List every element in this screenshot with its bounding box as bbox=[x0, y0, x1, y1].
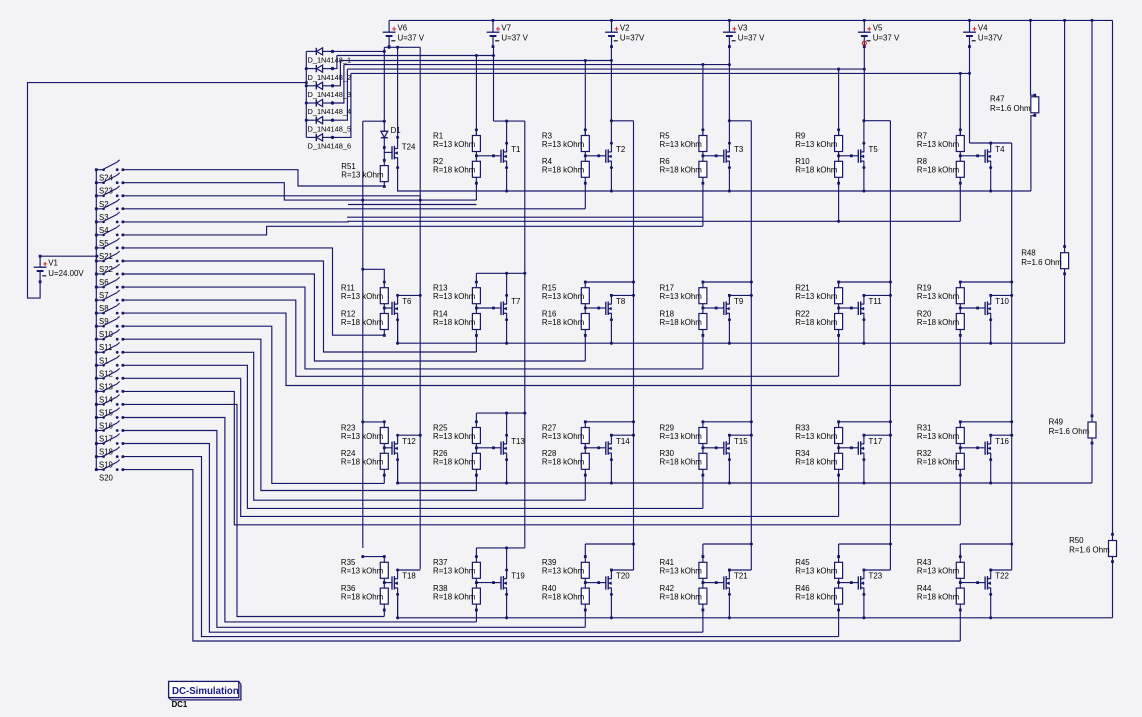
transistor T19 bbox=[501, 576, 507, 590]
wire R2 bottom stub bbox=[475, 182, 478, 185]
wire cell row4 col6 output horiz bbox=[960, 543, 1011, 545]
svg-text:T2: T2 bbox=[616, 145, 625, 154]
wire R48 top feed bbox=[1064, 20, 1066, 252]
svg-text:R=18 kOhm: R=18 kOhm bbox=[433, 318, 476, 327]
svg-text:R=13 kOhm: R=13 kOhm bbox=[795, 432, 838, 441]
wire output column col6 bbox=[1011, 143, 1013, 570]
svg-text:R49: R49 bbox=[1049, 418, 1064, 427]
svg-text:R=1.6 Ohm: R=1.6 Ohm bbox=[1069, 546, 1110, 555]
wire T15 drain bbox=[728, 435, 730, 444]
wire cell row3 col6 node bbox=[959, 444, 961, 454]
transistor T16 bbox=[985, 441, 991, 455]
wire from switch S3 bbox=[123, 208, 585, 210]
svg-text:R48: R48 bbox=[1021, 248, 1036, 257]
svg-text:D1: D1 bbox=[391, 126, 401, 135]
resistor R47 bbox=[1031, 97, 1039, 113]
svg-text:+: + bbox=[972, 24, 977, 33]
switch S15 bbox=[95, 395, 125, 418]
wire T23 source bbox=[863, 588, 865, 618]
svg-text:R=18 kOhm: R=18 kOhm bbox=[917, 166, 960, 175]
wire from switch S15 bbox=[123, 404, 384, 616]
svg-text:T11: T11 bbox=[869, 297, 882, 306]
resistor R17 bbox=[699, 288, 707, 304]
switch S23 bbox=[95, 173, 125, 196]
wire T18 source bbox=[397, 588, 399, 618]
resistor R7 bbox=[956, 136, 964, 152]
svg-text:R=18 kOhm: R=18 kOhm bbox=[795, 166, 838, 175]
wire from switch S14 bbox=[123, 391, 960, 524]
wire diode row5 riser bbox=[333, 69, 348, 120]
switch S6 bbox=[95, 264, 125, 287]
switch S24 bbox=[95, 160, 125, 183]
voltage source V3 bbox=[723, 20, 765, 48]
wire cell row4 col4 R column bbox=[702, 544, 704, 562]
wire T7 source bbox=[506, 313, 508, 343]
resistor R4 bbox=[581, 161, 589, 177]
resistor R48 bbox=[1061, 253, 1069, 269]
resistor R24 bbox=[380, 453, 388, 469]
transistor T12 bbox=[392, 441, 398, 455]
wire cell row2 col6 R column bbox=[959, 282, 961, 288]
wire V6 bottom node bbox=[384, 46, 420, 48]
wire from switch S10 bbox=[123, 326, 384, 483]
wire T12 drain to cascade bbox=[398, 435, 421, 444]
wire R47 top feed bbox=[1031, 20, 1035, 95]
wire cell row3 col3 node bbox=[584, 444, 586, 454]
switch S8 bbox=[95, 290, 125, 313]
svg-text:R=18 kOhm: R=18 kOhm bbox=[917, 458, 960, 467]
transistor T21 bbox=[724, 576, 730, 590]
wire T18 drain to cascade bbox=[398, 570, 421, 579]
svg-text:T9: T9 bbox=[734, 297, 744, 306]
svg-text:U=37V: U=37V bbox=[978, 34, 1003, 43]
svg-text:U=37 V: U=37 V bbox=[398, 34, 425, 43]
svg-text:R=13 kOhm: R=13 kOhm bbox=[660, 292, 703, 301]
svg-text:T19: T19 bbox=[511, 572, 525, 581]
wire source rail row3 bbox=[398, 460, 1092, 483]
svg-text:T6: T6 bbox=[402, 297, 412, 306]
wire cell row1 col2 R column bbox=[475, 130, 477, 136]
wire T4 source bbox=[990, 161, 992, 191]
wire R8 bottom stub bbox=[959, 182, 962, 185]
svg-text:T24: T24 bbox=[402, 142, 416, 151]
wire from switch S13 bbox=[123, 378, 839, 516]
svg-text:R=13 kOhm: R=13 kOhm bbox=[433, 432, 476, 441]
wire bus line B bbox=[340, 60, 611, 62]
wire bus tap col3 bbox=[584, 61, 586, 136]
diode D1 bbox=[381, 121, 401, 165]
wire from switch S7 bbox=[123, 287, 703, 369]
wire cell row2 col2 R column bbox=[475, 273, 477, 287]
wire V1 minus return bbox=[28, 83, 307, 299]
svg-text:V1: V1 bbox=[48, 259, 58, 268]
wire T13 drain bbox=[506, 413, 508, 444]
wire R49 top feed bbox=[1091, 20, 1093, 422]
wire from switch S18 bbox=[123, 444, 703, 633]
wire from switch S5 bbox=[123, 226, 703, 235]
wire cell row3 col6 R column bbox=[959, 422, 961, 428]
svg-text:T7: T7 bbox=[511, 297, 520, 306]
svg-text:T20: T20 bbox=[616, 572, 630, 581]
wire from switch S17 bbox=[123, 431, 585, 628]
wire T10 drain bbox=[990, 295, 992, 304]
wire top V+ rail bbox=[389, 19, 1112, 21]
wire T5 drain bbox=[863, 121, 865, 152]
wire T14 source bbox=[610, 453, 612, 483]
wire cell row1 col4 node bbox=[702, 152, 704, 162]
wire bus line E bbox=[351, 72, 970, 74]
wire T21 source bbox=[728, 588, 730, 618]
transistor T17 bbox=[858, 441, 864, 455]
svg-text:T3: T3 bbox=[734, 145, 744, 154]
svg-text:R=13 kOhm: R=13 kOhm bbox=[542, 140, 585, 149]
svg-text:U=24.00V: U=24.00V bbox=[48, 269, 84, 278]
wire cell row2 col4 output horiz bbox=[703, 281, 751, 283]
wire bus tap col4 bbox=[702, 65, 704, 136]
wire T20 source bbox=[610, 588, 612, 618]
resistor R29 bbox=[699, 428, 707, 444]
wire R16 bottom stub bbox=[584, 334, 587, 337]
resistor R16 bbox=[581, 314, 589, 330]
wire cell row2 col1 supply horiz bbox=[363, 269, 385, 287]
DC simulation block DC1 bbox=[169, 681, 241, 708]
wire cell row4 col1 node bbox=[383, 578, 385, 588]
wire cell row4 col3 node bbox=[584, 578, 586, 588]
wire cell row2 col1 node bbox=[383, 304, 385, 314]
wire T17 source bbox=[863, 453, 865, 483]
wire V2 drop bbox=[610, 46, 612, 120]
wire from switch S8 bbox=[123, 300, 839, 376]
svg-text:T14: T14 bbox=[616, 437, 630, 446]
switch S7 bbox=[95, 277, 125, 300]
wire V6 feed left bbox=[383, 47, 385, 121]
wire R14 bottom stub bbox=[475, 334, 478, 337]
svg-text:D_1N4148_6: D_1N4148_6 bbox=[308, 142, 352, 151]
wire T4 drain bbox=[990, 143, 992, 152]
resistor R5 bbox=[699, 136, 707, 152]
wire T21 drain bbox=[728, 570, 730, 579]
voltage source V1 bbox=[34, 255, 85, 283]
wire cell row2 col2 node bbox=[475, 304, 477, 314]
wire cell row4 col2 node bbox=[475, 578, 477, 588]
switch S2 bbox=[95, 186, 125, 209]
switch S9 bbox=[95, 303, 125, 326]
svg-text:R50: R50 bbox=[1069, 536, 1084, 545]
svg-text:T17: T17 bbox=[869, 437, 883, 446]
svg-text:R=13 kOhm: R=13 kOhm bbox=[660, 567, 703, 576]
wire bus line D bbox=[347, 68, 864, 70]
wire row2 col2 top feed bbox=[348, 204, 476, 206]
wire cell row3 col5 output horiz bbox=[839, 421, 891, 423]
wire T16 source bbox=[990, 453, 992, 483]
resistor R1 bbox=[472, 136, 480, 152]
voltage source V7 bbox=[487, 20, 529, 48]
wire R26 bottom stub bbox=[475, 474, 478, 477]
svg-text:R=13 kOhm: R=13 kOhm bbox=[542, 432, 585, 441]
svg-text:R=13 kOhm: R=13 kOhm bbox=[795, 140, 838, 149]
wire R10 bottom stub bbox=[837, 182, 840, 185]
wire cell row4 col2 R column bbox=[475, 548, 477, 562]
svg-text:T22: T22 bbox=[995, 572, 1009, 581]
switch S10 bbox=[95, 316, 125, 339]
wire from switch S2 bbox=[123, 196, 420, 200]
resistor R9 bbox=[835, 136, 843, 152]
svg-text:DC-Simulation: DC-Simulation bbox=[172, 686, 239, 697]
transistor T15 bbox=[724, 441, 730, 455]
wire from switch S19 bbox=[123, 457, 839, 637]
wire cell row2 col5 R column bbox=[838, 282, 840, 288]
resistor R30 bbox=[699, 453, 707, 469]
svg-text:R=18 kOhm: R=18 kOhm bbox=[795, 458, 838, 467]
svg-text:+: + bbox=[732, 24, 737, 33]
svg-text:R=18 kOhm: R=18 kOhm bbox=[660, 166, 703, 175]
svg-text:R=13 kOhm: R=13 kOhm bbox=[341, 567, 384, 576]
wire R4 bottom stub bbox=[584, 182, 587, 185]
wire T1 source bbox=[506, 161, 508, 191]
svg-text:R=18 kOhm: R=18 kOhm bbox=[542, 318, 585, 327]
wire cell row1 col3 R column bbox=[584, 130, 586, 136]
wire T2 source bbox=[610, 161, 612, 191]
wire diode row3 riser bbox=[333, 61, 341, 86]
resistor R49 bbox=[1088, 422, 1096, 438]
svg-text:R=18 kOhm: R=18 kOhm bbox=[542, 593, 585, 602]
wire T14 drain bbox=[610, 435, 612, 444]
wire cell row3 col4 R column bbox=[702, 422, 704, 428]
wire col1 supply column bbox=[362, 121, 364, 548]
switch S21 bbox=[95, 238, 125, 261]
wire bus tap col2 bbox=[475, 56, 477, 136]
wire cell row1 col3 output horiz bbox=[611, 120, 633, 122]
resistor R44 bbox=[956, 588, 964, 604]
svg-text:R=13 kOhm: R=13 kOhm bbox=[917, 432, 960, 441]
resistor R21 bbox=[835, 288, 843, 304]
svg-text:R=18 kOhm: R=18 kOhm bbox=[433, 593, 476, 602]
resistor R38 bbox=[472, 588, 480, 604]
resistor R22 bbox=[835, 314, 843, 330]
svg-text:T8: T8 bbox=[616, 297, 626, 306]
svg-text:V5: V5 bbox=[873, 23, 883, 32]
resistor R40 bbox=[581, 588, 589, 604]
svg-text:+: + bbox=[43, 259, 48, 268]
svg-text:R=18 kOhm: R=18 kOhm bbox=[917, 318, 960, 327]
wire from switch S20 bbox=[123, 470, 960, 641]
voltage source V5 bbox=[858, 20, 900, 48]
resistor R28 bbox=[581, 453, 589, 469]
wire cell row3 col2 R column bbox=[475, 413, 477, 427]
wire T19 drain bbox=[506, 548, 508, 579]
wire R24 bottom stub bbox=[383, 474, 386, 477]
wire cell row4 col5 node bbox=[838, 578, 840, 588]
wire cell row2 col4 R column bbox=[702, 282, 704, 288]
svg-text:R=13 kOhm: R=13 kOhm bbox=[917, 140, 960, 149]
svg-text:T21: T21 bbox=[734, 572, 748, 581]
svg-text:S1: S1 bbox=[99, 356, 109, 365]
switch S17 bbox=[95, 421, 125, 444]
wire cell row1 col5 node bbox=[838, 152, 840, 162]
diode D_1N4148_6 bbox=[306, 134, 334, 141]
wire output column col2 bbox=[524, 121, 526, 548]
wire cell row3 col1 node bbox=[383, 444, 385, 454]
wire col1 cascade vertical bbox=[419, 47, 421, 569]
diode D_1N4148_1 bbox=[306, 48, 334, 55]
transistor T8 bbox=[606, 301, 612, 315]
wire bus tap col5 bbox=[838, 69, 840, 135]
svg-text:R=13 kOhm: R=13 kOhm bbox=[433, 292, 476, 301]
resistor R34 bbox=[835, 453, 843, 469]
wire cell row1 col2 node bbox=[475, 152, 477, 162]
wire R28 bottom stub bbox=[584, 474, 587, 477]
wire source rail row1 bbox=[398, 168, 1031, 191]
wire cell row4 col3 R column bbox=[584, 544, 586, 562]
svg-text:T23: T23 bbox=[869, 572, 883, 581]
svg-text:R=13 kOhm: R=13 kOhm bbox=[433, 567, 476, 576]
wire cell row3 col1 supply horiz bbox=[363, 422, 385, 428]
svg-text:R47: R47 bbox=[990, 94, 1004, 103]
wire R22 bottom stub bbox=[837, 334, 840, 337]
wire from switch S23 bbox=[123, 183, 477, 200]
switch S3 bbox=[95, 199, 125, 222]
svg-text:D_1N4148_4: D_1N4148_4 bbox=[308, 107, 352, 116]
voltage source V6 bbox=[383, 20, 425, 48]
svg-text:R=18 kOhm: R=18 kOhm bbox=[660, 593, 703, 602]
svg-text:R=13 kOhm: R=13 kOhm bbox=[542, 292, 585, 301]
wire output column col4 bbox=[750, 121, 752, 570]
transistor T2 bbox=[606, 149, 612, 163]
svg-text:R=13 kOhm: R=13 kOhm bbox=[917, 292, 960, 301]
wire cell row4 col6 R column bbox=[959, 544, 961, 562]
wire from switch S6 bbox=[123, 274, 585, 361]
wire R46 bottom stub bbox=[837, 609, 840, 612]
resistor R25 bbox=[472, 428, 480, 444]
svg-text:D_1N4148_2: D_1N4148_2 bbox=[308, 73, 352, 82]
transistor T7 bbox=[501, 301, 507, 315]
svg-text:T13: T13 bbox=[511, 437, 525, 446]
svg-text:R=13 kOhm: R=13 kOhm bbox=[542, 567, 585, 576]
wire R20 bottom stub bbox=[959, 334, 962, 337]
resistor R45 bbox=[835, 562, 843, 578]
transistor T10 bbox=[985, 301, 991, 315]
svg-text:R=18 kOhm: R=18 kOhm bbox=[341, 593, 384, 602]
svg-text:+: + bbox=[392, 24, 397, 33]
wire R44 bottom stub bbox=[959, 609, 962, 612]
wire cell row1 col2 output horiz bbox=[494, 120, 525, 122]
wire output column col5 bbox=[889, 121, 891, 570]
transistor T18 bbox=[392, 576, 398, 590]
wire V1 plus to switch rail bbox=[40, 255, 97, 257]
wire cell row4 col3 output horiz bbox=[585, 543, 633, 545]
wire cell row1 col4 output horiz bbox=[729, 120, 751, 122]
svg-text:+: + bbox=[867, 24, 872, 33]
svg-text:V7: V7 bbox=[501, 23, 511, 32]
wire T11 source bbox=[863, 313, 865, 343]
transistor T13 bbox=[501, 441, 507, 455]
resistor R41 bbox=[699, 562, 707, 578]
svg-text:D_1N4148_3: D_1N4148_3 bbox=[308, 90, 352, 99]
resistor R36 bbox=[380, 588, 388, 604]
resistor R33 bbox=[835, 428, 843, 444]
resistor R13 bbox=[472, 288, 480, 304]
svg-text:V2: V2 bbox=[620, 23, 630, 32]
wire from switch S11 bbox=[123, 339, 477, 490]
wire cell row4 col2 output horiz bbox=[476, 547, 524, 549]
switch S13 bbox=[95, 368, 125, 391]
svg-text:R=13 kOhm: R=13 kOhm bbox=[660, 140, 703, 149]
wire V7 drop bbox=[493, 46, 495, 121]
svg-text:S7: S7 bbox=[99, 291, 109, 300]
wire R18 bottom stub bbox=[702, 334, 705, 337]
diode D_1N4148_5 bbox=[306, 117, 334, 124]
svg-text:S8: S8 bbox=[99, 304, 109, 313]
svg-text:R=18 kOhm: R=18 kOhm bbox=[795, 318, 838, 327]
svg-text:R=18 kOhm: R=18 kOhm bbox=[542, 166, 585, 175]
svg-text:R=13 kOhm: R=13 kOhm bbox=[341, 170, 384, 179]
svg-text:T4: T4 bbox=[995, 145, 1005, 154]
wire from switch S21 bbox=[123, 248, 384, 335]
wire cell row2 col4 node bbox=[702, 304, 704, 314]
wire T17 drain bbox=[863, 435, 865, 444]
wire T9 source bbox=[728, 313, 730, 343]
svg-text:R=18 kOhm: R=18 kOhm bbox=[433, 458, 476, 467]
wire cell row4 col4 output horiz bbox=[703, 543, 751, 545]
wire T19 source bbox=[506, 588, 508, 618]
transistor T11 bbox=[858, 301, 864, 315]
wire diode chain left rail bbox=[305, 51, 307, 137]
wire R30 bottom stub bbox=[702, 474, 705, 477]
resistor R18 bbox=[699, 314, 707, 330]
wire T12 source bbox=[397, 453, 399, 483]
svg-text:T16: T16 bbox=[995, 437, 1009, 446]
svg-text:R=1.6 Ohm: R=1.6 Ohm bbox=[1021, 258, 1062, 267]
svg-text:R=13 kOhm: R=13 kOhm bbox=[795, 292, 838, 301]
resistor R10 bbox=[835, 161, 843, 177]
transistor T1 bbox=[501, 149, 507, 163]
svg-text:R=13 kOhm: R=13 kOhm bbox=[660, 432, 703, 441]
resistor R11 bbox=[380, 288, 388, 304]
svg-text:V6: V6 bbox=[398, 23, 408, 32]
wire bus line C bbox=[344, 64, 730, 66]
wire cell row2 col6 node bbox=[959, 304, 961, 314]
svg-text:R=18 kOhm: R=18 kOhm bbox=[917, 593, 960, 602]
wire from switch S22 bbox=[123, 261, 477, 352]
svg-text:T10: T10 bbox=[995, 297, 1009, 306]
wire T22 source bbox=[990, 588, 992, 618]
wire cell row2 col5 node bbox=[838, 304, 840, 314]
svg-text:D_1N4148_5: D_1N4148_5 bbox=[308, 124, 352, 133]
switch S16 bbox=[95, 408, 125, 431]
resistor R37 bbox=[472, 562, 480, 578]
svg-text:R=18 kOhm: R=18 kOhm bbox=[660, 458, 703, 467]
svg-text:DC1: DC1 bbox=[172, 700, 188, 709]
resistor R20 bbox=[956, 314, 964, 330]
switch S18 bbox=[95, 434, 125, 457]
wire T16 drain bbox=[990, 435, 992, 444]
resistor R6 bbox=[699, 161, 707, 177]
svg-text:R=1.6 Ohm: R=1.6 Ohm bbox=[1049, 427, 1090, 436]
wire cell row3 col5 R column bbox=[838, 422, 840, 428]
switch S12 bbox=[95, 355, 125, 378]
resistor R32 bbox=[956, 453, 964, 469]
wire cell row3 col4 node bbox=[702, 444, 704, 454]
wire cell row3 col3 output horiz bbox=[585, 421, 633, 423]
wire R6 bottom stub bbox=[702, 182, 705, 185]
svg-text:S3: S3 bbox=[99, 213, 109, 222]
wire cell row1 col6 node bbox=[959, 152, 961, 162]
wire switch rail bbox=[95, 170, 97, 470]
wire T6 source bbox=[397, 313, 399, 343]
wire T8 drain bbox=[610, 295, 612, 304]
wire cell row3 col2 output horiz bbox=[476, 412, 524, 414]
transistor T5 bbox=[858, 149, 864, 163]
